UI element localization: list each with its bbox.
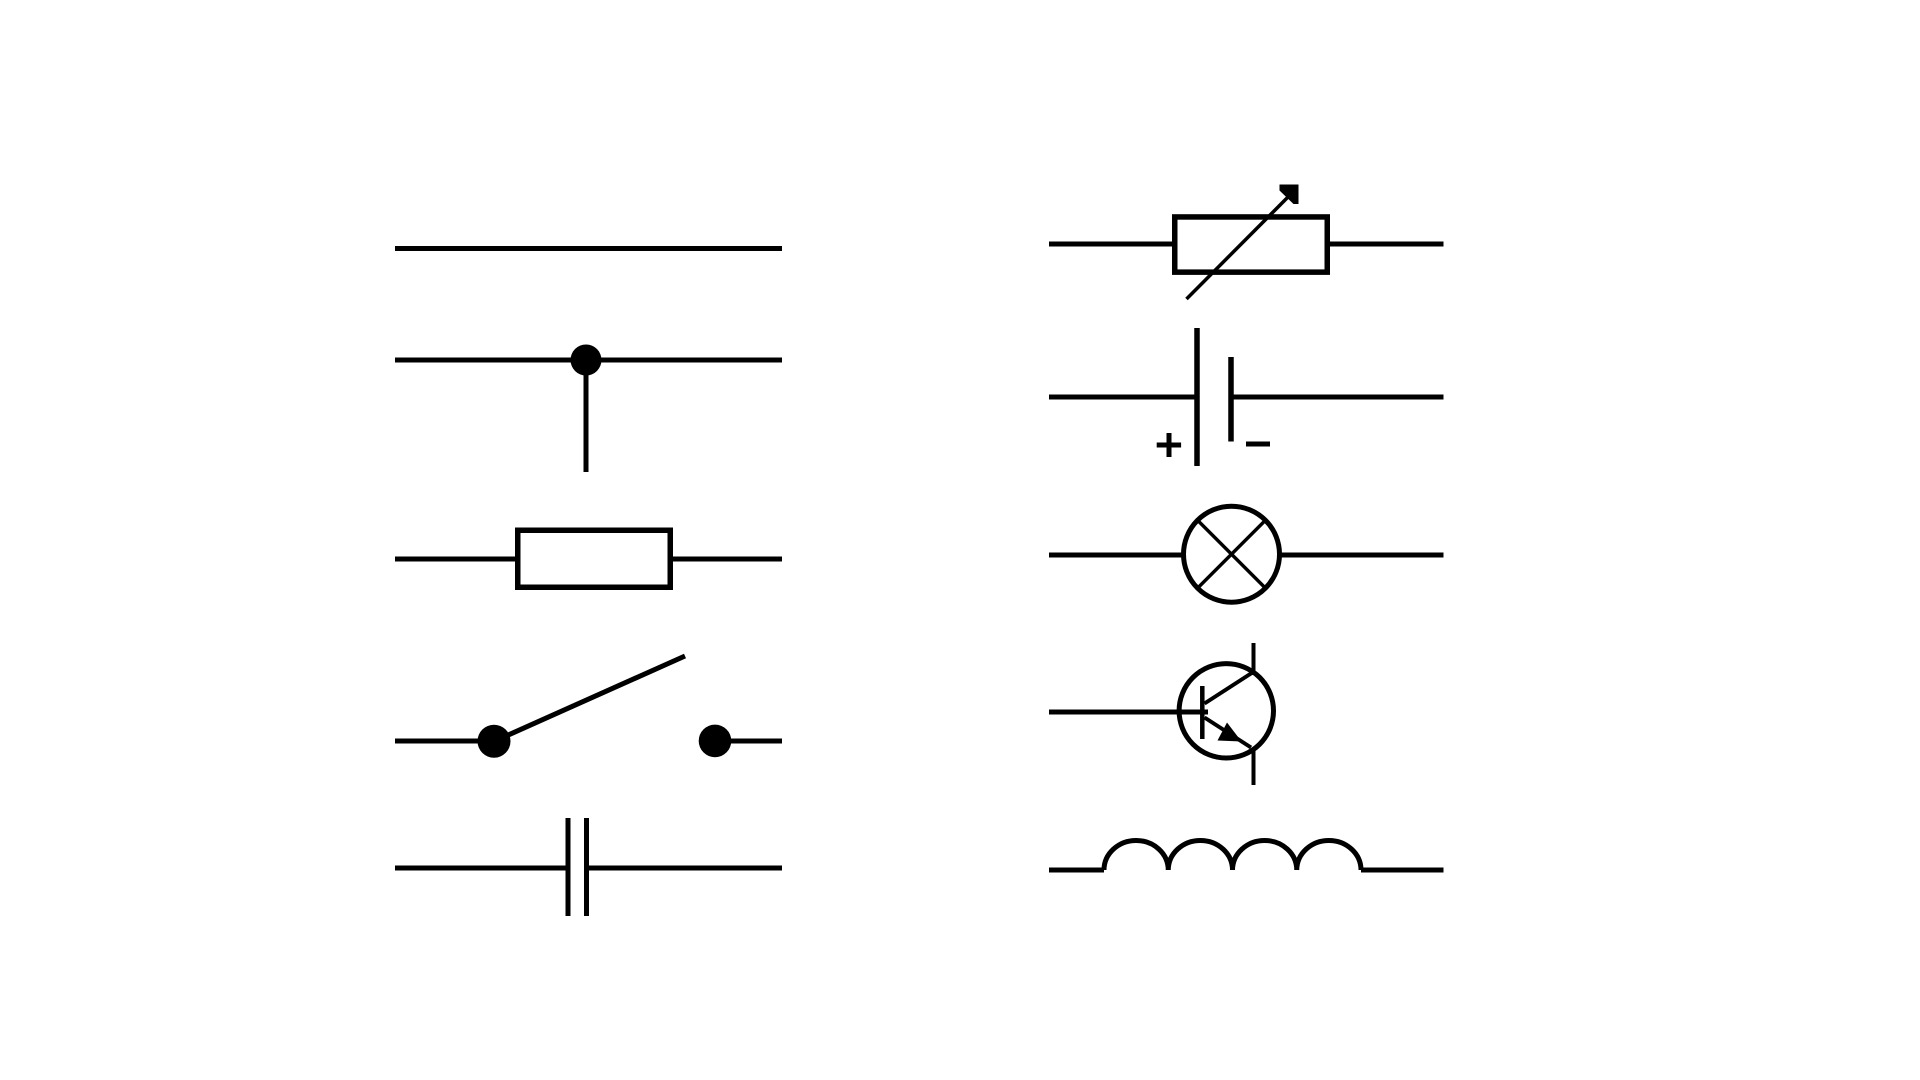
transistor Q1 collector lead	[1252, 643, 1256, 675]
wire W5 (right lead of resistor R1)	[670, 557, 782, 562]
battery BT1 minus sign	[1246, 442, 1270, 447]
variable resistor RV1 box	[1175, 217, 1328, 272]
variable resistor RV1 arrow shaft	[1187, 196, 1290, 299]
transistor Q1 emitter diagonal	[1205, 718, 1252, 748]
transistor Q1 base bar	[1200, 686, 1205, 739]
wire W7 (right lead of switch S1)	[727, 739, 782, 744]
switch S1 right contact dot	[699, 725, 732, 758]
wire W4 (left lead of resistor R1)	[395, 557, 518, 562]
wire W2 (horizontal conductor with branch)	[395, 358, 782, 363]
battery BT1 positive plate (long)	[1194, 328, 1200, 466]
capacitor C1 left plate	[566, 818, 571, 916]
battery BT1 plus sign	[1157, 433, 1181, 457]
wire W10 (left lead of variable resistor RV1)	[1049, 242, 1172, 247]
wire W12 (left lead of battery BT1)	[1049, 395, 1197, 400]
battery BT1 negative plate (short)	[1228, 357, 1234, 442]
resistor R1 (IEC box symbol)	[518, 530, 671, 587]
inductor L1 winding (four half-turns)	[1104, 840, 1361, 870]
wire W13 (right lead of battery BT1)	[1234, 395, 1444, 400]
switch S1 left contact dot	[478, 725, 511, 758]
transistor Q1 emitter arrowhead	[1218, 723, 1242, 742]
transistor Q1 collector diagonal	[1205, 673, 1253, 704]
switch S1 lever arm	[497, 656, 685, 740]
wire W9 (right lead of capacitor C1)	[589, 866, 782, 871]
wire W15 (right lead of lamp LP1)	[1279, 553, 1444, 558]
wire W11 (right lead of variable resistor RV1)	[1330, 242, 1444, 247]
wire W6 (left lead of switch S1)	[395, 739, 484, 744]
lamp LP1 cross stroke 1	[1199, 522, 1264, 587]
wire W8 (left lead of capacitor C1)	[395, 866, 566, 871]
junction dot J1	[571, 345, 602, 376]
wire W17 (left lead of inductor L1)	[1049, 868, 1104, 873]
transistor Q1 envelope circle	[1179, 664, 1273, 758]
transistor Q1 emitter lead	[1252, 749, 1256, 786]
variable resistor RV1 arrow head	[1280, 185, 1299, 205]
wire W18 (right lead of inductor L1)	[1361, 868, 1444, 873]
wire W14 (left lead of lamp LP1)	[1049, 553, 1184, 558]
lamp LP1 cross stroke 2	[1199, 522, 1264, 587]
wire W16 (base lead of transistor Q1)	[1049, 710, 1208, 715]
wire W3 (vertical branch from junction J1)	[584, 360, 589, 472]
capacitor C1 right plate	[584, 818, 589, 916]
wire W1 (plain conductor, top left)	[395, 246, 782, 251]
lamp LP1 envelope circle	[1184, 506, 1280, 602]
